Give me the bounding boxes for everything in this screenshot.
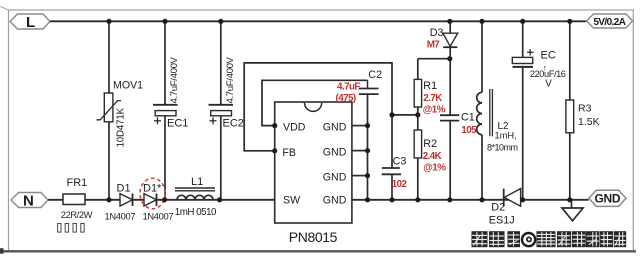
wire MOV1 column — [108, 21, 110, 200]
svg-text:C3: C3 — [393, 156, 407, 168]
ground — [562, 200, 583, 221]
svg-text:GND: GND — [323, 172, 347, 184]
svg-text:M7: M7 — [427, 40, 441, 51]
svg-text:ES1J: ES1J — [489, 214, 515, 226]
svg-text:4.7uF/400V: 4.7uF/400V — [225, 56, 236, 103]
capacitor C3 — [382, 156, 408, 200]
svg-text:V: V — [545, 79, 552, 90]
svg-text:R1: R1 — [423, 80, 437, 92]
svg-text:1mH,: 1mH, — [495, 130, 517, 140]
svg-text:C2: C2 — [368, 69, 382, 81]
inductor L1 — [175, 176, 217, 218]
resistor R2 — [414, 115, 446, 200]
svg-text:10D471K: 10D471K — [116, 107, 127, 147]
terminal L — [10, 14, 50, 31]
terminal GND — [589, 190, 626, 206]
capacitor C2 — [336, 69, 383, 104]
junction dots bottom rail — [106, 197, 572, 202]
wire top rail — [50, 20, 587, 22]
terminal N — [11, 192, 48, 209]
svg-text:EC1: EC1 — [167, 118, 188, 130]
svg-text:105: 105 — [461, 125, 477, 136]
svg-text:PN8015: PN8015 — [289, 229, 338, 245]
svg-text:SW: SW — [283, 194, 300, 206]
junction dots middle — [272, 56, 452, 178]
wire FB to R1 — [392, 114, 418, 116]
svg-text:L: L — [26, 14, 35, 31]
diode D1 — [105, 182, 136, 221]
wire VDD loop — [262, 80, 368, 125]
resistor R3 — [566, 21, 600, 200]
varistor MOV1 — [97, 79, 144, 147]
terminal 5V/0.2A — [587, 14, 633, 28]
svg-text:↑: ↑ — [543, 64, 547, 73]
svg-text:2.7K: 2.7K — [423, 93, 442, 104]
wire D3 to R1 — [418, 58, 450, 60]
svg-text:GND: GND — [323, 194, 347, 206]
wire bottom rail right — [352, 199, 589, 201]
svg-text:5V/0.2A: 5V/0.2A — [593, 17, 626, 28]
capacitor EC — [512, 21, 566, 200]
diode D3 — [427, 21, 458, 115]
svg-text:EC2: EC2 — [223, 118, 244, 130]
svg-text:EC: EC — [541, 49, 556, 61]
svg-text:1.5K: 1.5K — [578, 116, 600, 128]
svg-text:(475): (475) — [336, 93, 356, 104]
IC U1 PN8015 — [275, 102, 352, 245]
svg-text:D2: D2 — [491, 201, 505, 213]
junction dots top rail — [106, 19, 572, 24]
svg-text:@1%: @1% — [423, 105, 446, 116]
wire GND stubs — [352, 94, 368, 200]
svg-text:1mH 0510: 1mH 0510 — [175, 207, 217, 218]
svg-text:GND: GND — [323, 147, 347, 159]
svg-text:VDD: VDD — [283, 122, 306, 134]
wire EC1 column — [164, 21, 166, 200]
svg-text:D1*: D1* — [143, 182, 162, 194]
watermark 搜狐号@驪微电子科技 — [472, 231, 627, 247]
inductor L2 — [477, 21, 518, 200]
wire FB loop — [244, 63, 392, 168]
svg-text:102: 102 — [392, 179, 408, 190]
diode D2 — [489, 189, 521, 227]
svg-text:FR1: FR1 — [67, 177, 88, 189]
svg-text:D3: D3 — [430, 27, 444, 39]
resistor R1 — [414, 59, 446, 116]
diode D1* — [140, 178, 173, 221]
svg-text:@1%: @1% — [423, 162, 446, 173]
svg-text:4.7uF/400V: 4.7uF/400V — [169, 56, 180, 103]
svg-text:1N4007: 1N4007 — [143, 210, 174, 221]
capacitor C1 — [440, 111, 477, 200]
svg-text:22R/2W: 22R/2W — [61, 210, 93, 220]
wire EC2 column — [220, 21, 222, 200]
svg-text:MOV1: MOV1 — [113, 79, 143, 91]
svg-text:D1: D1 — [117, 182, 131, 194]
svg-text:R2: R2 — [423, 138, 437, 150]
svg-text:1N4007: 1N4007 — [105, 210, 136, 221]
capacitor EC2 — [209, 56, 244, 129]
svg-text:C1: C1 — [461, 111, 475, 123]
svg-text:FB: FB — [282, 147, 296, 159]
wire bottom rail left — [48, 199, 275, 201]
svg-text:GND: GND — [323, 122, 347, 134]
svg-text:L1: L1 — [191, 176, 203, 188]
svg-text:8*10mm: 8*10mm — [487, 142, 518, 152]
svg-text:4.7uF: 4.7uF — [337, 82, 360, 93]
svg-text:N: N — [23, 192, 34, 209]
svg-text:GND: GND — [595, 192, 621, 206]
svg-text:2.4K: 2.4K — [423, 151, 442, 162]
capacitor EC1 — [153, 56, 188, 129]
svg-text:R3: R3 — [578, 103, 592, 115]
resistor FR1 — [58, 177, 93, 232]
